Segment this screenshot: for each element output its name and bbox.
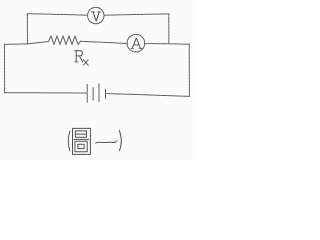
wire resistor to ammeter (81, 41, 128, 43)
wire right outer vertical (188, 44, 190, 96)
character 圖 outer box (73, 128, 91, 154)
wire left outer vertical (4, 44, 6, 92)
character 圖 top inner box (75, 131, 86, 137)
wire inner left vertical (26, 14, 28, 44)
character 一 (96, 141, 117, 143)
wire measurement branch left (5, 42, 49, 45)
character 圖 bottom inner box (78, 144, 84, 148)
wire top branch right (104, 14, 169, 15)
wire top branch left (27, 14, 87, 16)
label Rx (75, 51, 89, 66)
battery (87, 84, 105, 102)
wire ammeter to right corner (145, 43, 190, 46)
character 圖 bottom box (75, 141, 87, 152)
ammeter A (127, 34, 145, 52)
left parenthesis (68, 131, 70, 151)
wire inner right vertical (168, 14, 170, 44)
wire bottom right (107, 94, 190, 97)
right parenthesis (119, 130, 121, 150)
resistor Rx (49, 36, 81, 45)
voltmeter V (88, 7, 104, 23)
caption (圖一) (68, 128, 121, 154)
character 圖 middle bar (74, 138, 89, 140)
wire bottom left (5, 92, 87, 94)
